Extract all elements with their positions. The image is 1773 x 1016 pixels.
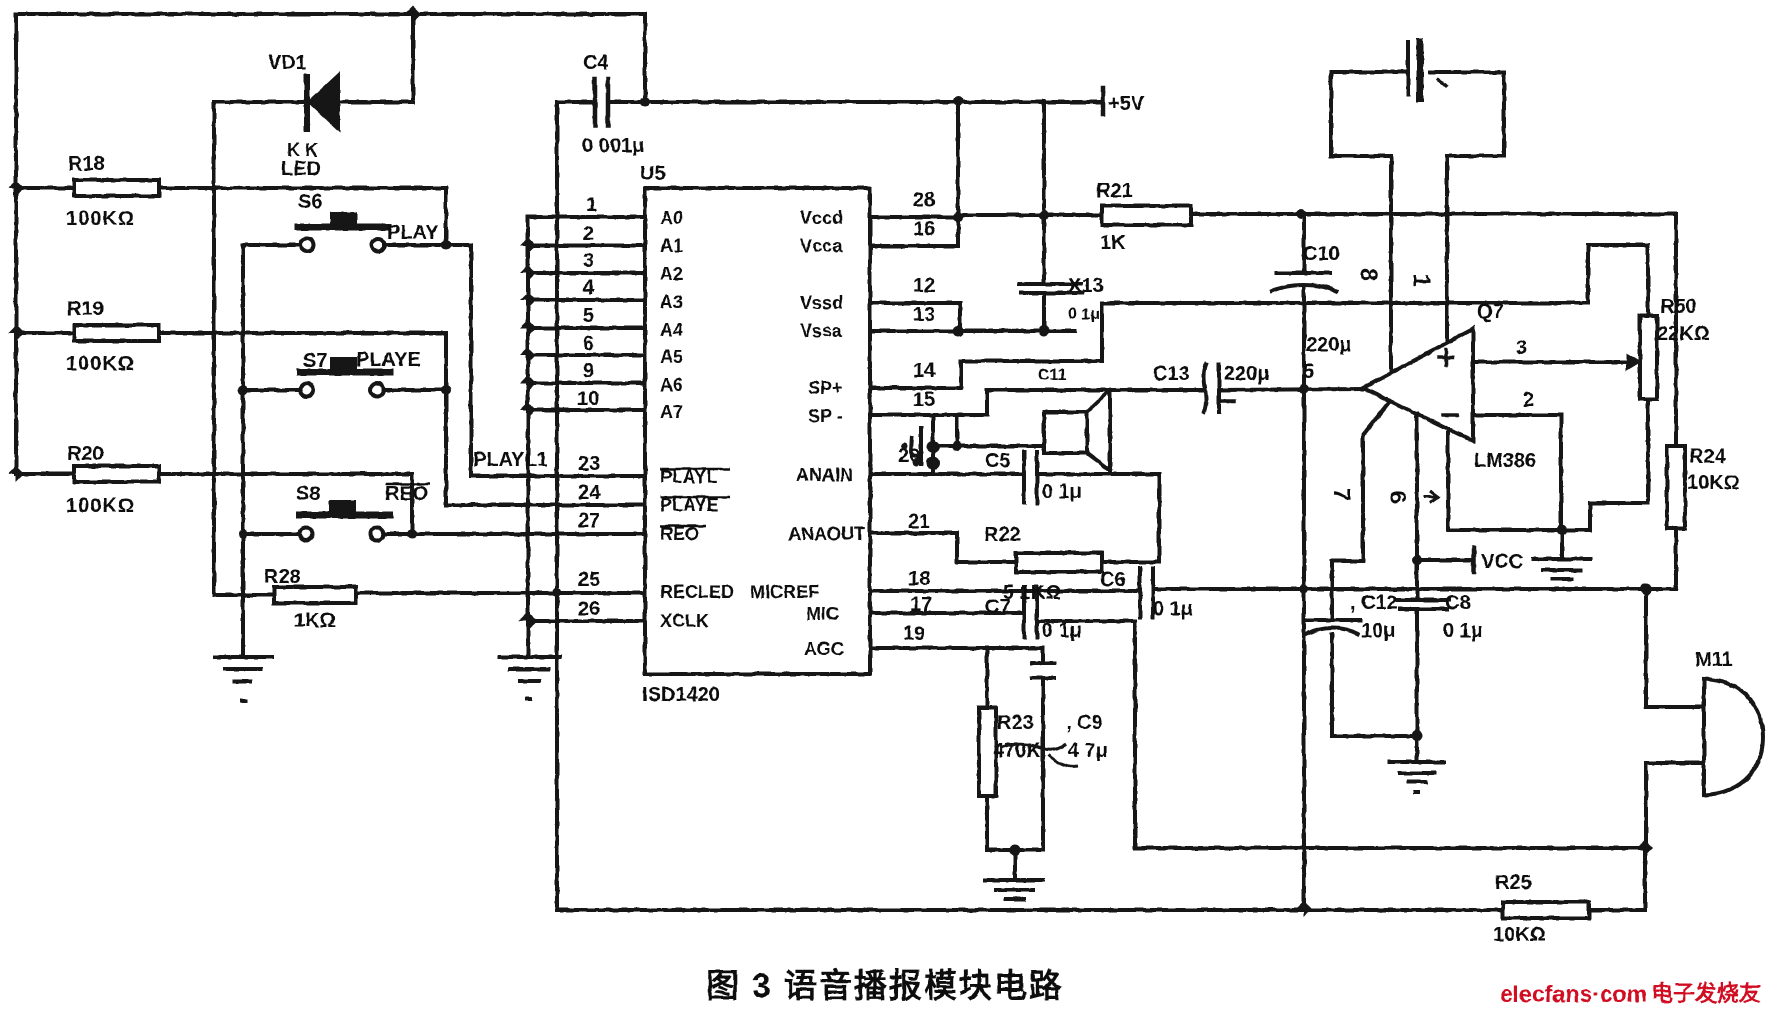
svg-text:8: 8	[1355, 268, 1382, 281]
svg-text:R20: R20	[67, 443, 104, 465]
wire R20 left lead	[16, 472, 74, 476]
resistor R18	[74, 180, 159, 196]
junction	[927, 457, 940, 470]
svg-text:C7: C7	[985, 596, 1011, 618]
svg-text:ANAIN: ANAIN	[796, 465, 853, 485]
svg-text:0 1μ: 0 1μ	[1068, 306, 1100, 323]
svg-text:10μ: 10μ	[1361, 620, 1395, 642]
svg-text:SP -: SP -	[808, 406, 843, 426]
svg-text:REO: REO	[385, 483, 428, 505]
svg-text:9: 9	[583, 360, 594, 382]
wire pin 12 Vssd	[870, 303, 960, 331]
svg-text:25: 25	[578, 569, 600, 591]
wire SP- to speaker box	[933, 444, 1044, 448]
svg-text:3: 3	[583, 250, 594, 272]
svg-text:VCC: VCC	[1481, 551, 1523, 573]
wire pin 14 SP+ riser	[870, 303, 1102, 388]
resistor R22	[1016, 553, 1102, 572]
resistor R24	[1667, 446, 1685, 528]
svg-text:17: 17	[910, 594, 932, 616]
svg-text:R21: R21	[1096, 180, 1133, 202]
junction	[8, 325, 24, 341]
svg-text:C11: C11	[1038, 367, 1067, 384]
wire R24 bottom leg	[1674, 528, 1678, 589]
wire C12 bottom leg	[1332, 634, 1417, 736]
svg-text:C13: C13	[1153, 363, 1190, 385]
svg-text:PLAY: PLAY	[387, 222, 439, 244]
wire pin 15 SP-	[870, 415, 957, 446]
wire lower run to M11 junction	[1135, 846, 1645, 850]
svg-text:XCLK: XCLK	[660, 611, 709, 631]
svg-text:6: 6	[1385, 491, 1411, 504]
wire amp pin 1 leg	[1445, 156, 1449, 342]
svg-text:A7: A7	[660, 402, 683, 422]
wire S6 left contact lead	[243, 243, 301, 247]
svg-text:SP+: SP+	[808, 378, 843, 398]
wire top border and left border	[16, 14, 645, 474]
wire C9 top leg	[1041, 648, 1045, 663]
wire X13 bottom leg	[1042, 293, 1046, 331]
svg-text:U5: U5	[640, 163, 666, 185]
svg-text:C10: C10	[1303, 243, 1340, 265]
wire S8 right contact to pin 27	[383, 532, 645, 536]
junction	[519, 612, 537, 630]
junction	[1296, 209, 1306, 219]
junction	[520, 292, 536, 308]
svg-text:24: 24	[578, 482, 601, 504]
wire ground drop from feedback box	[1560, 530, 1564, 559]
svg-text:23: 23	[578, 453, 600, 475]
junction	[1557, 525, 1568, 536]
svg-text:X13: X13	[1068, 275, 1104, 297]
capacitor C4	[595, 79, 608, 126]
wire switch common chain vertical	[241, 245, 245, 657]
svg-text:22KΩ: 22KΩ	[1657, 323, 1710, 345]
wire pin 5	[528, 326, 645, 330]
ground under C8 C12	[1389, 762, 1444, 792]
wire pin 18 MICREF to C6	[870, 589, 1140, 593]
svg-text:0 1μ: 0 1μ	[1042, 481, 1082, 503]
svg-text:电子发烧友: 电子发烧友	[1651, 981, 1761, 1006]
svg-text:AGC: AGC	[804, 639, 844, 659]
junction	[238, 385, 248, 395]
wire C7 to bottom run	[1038, 621, 1135, 848]
resistor R28	[274, 587, 356, 603]
svg-text:C6: C6	[1100, 569, 1126, 591]
svg-text:18: 18	[908, 568, 930, 590]
svg-text:S7: S7	[303, 350, 327, 372]
junction	[520, 375, 536, 391]
wire S7 left contact lead	[243, 388, 301, 392]
svg-text:S6: S6	[298, 191, 322, 213]
wire pin 21 ANAOUT	[870, 533, 1016, 562]
svg-text:R19: R19	[67, 298, 104, 320]
capacitor C7	[1024, 587, 1037, 637]
power VCC terminal	[1472, 548, 1477, 572]
svg-text:220μ: 220μ	[1306, 334, 1352, 356]
wire amp pin 8 leg	[1389, 156, 1393, 373]
svg-text:5: 5	[583, 305, 594, 327]
wire R28 right lead to pin 25	[356, 591, 645, 595]
svg-text:R24: R24	[1689, 446, 1727, 468]
svg-text:5: 5	[1303, 361, 1314, 383]
power +5V terminal	[1101, 88, 1106, 114]
junction	[640, 97, 650, 107]
wire M11 bottom branch	[1646, 763, 1704, 848]
junction	[8, 466, 24, 482]
wire C6 to R24 bottom long run	[1153, 587, 1676, 591]
junction	[405, 6, 421, 22]
wire pin 10	[528, 408, 645, 412]
wire pin 17 MIC to C7	[870, 611, 1024, 615]
svg-text:2: 2	[583, 223, 594, 245]
svg-text:1KΩ: 1KΩ	[294, 610, 336, 632]
wire to AGC ground	[1013, 850, 1017, 880]
wire R20 right lead to S8	[159, 474, 412, 534]
svg-text:A3: A3	[660, 292, 683, 312]
wire C13 to amp input pin 5	[1219, 389, 1363, 390]
wire address ladder vertical	[526, 217, 530, 657]
svg-text:100KΩ: 100KΩ	[66, 208, 135, 230]
wire X13 top leg from +5V rail	[1042, 101, 1046, 284]
capacitor X13	[1019, 284, 1082, 293]
svg-text:Vcca: Vcca	[800, 236, 843, 256]
svg-text:, C12: , C12	[1350, 592, 1398, 614]
wire R19 left lead	[16, 331, 74, 335]
svg-text:4 7μ: 4 7μ	[1068, 740, 1108, 762]
svg-text:21: 21	[908, 511, 930, 533]
junction	[520, 320, 536, 336]
wire pin 3	[528, 271, 645, 275]
svg-text:ANAOUT: ANAOUT	[788, 524, 865, 544]
wire pin 1	[528, 215, 645, 219]
resistor R25	[1503, 902, 1589, 918]
svg-text:6: 6	[583, 333, 594, 355]
switch S6	[298, 214, 388, 252]
svg-text:M11: M11	[1695, 649, 1733, 671]
svg-text:A1: A1	[660, 236, 683, 256]
wire R25 right lead	[1589, 848, 1645, 910]
junction	[239, 530, 248, 539]
junction	[1039, 210, 1049, 220]
wire R23 top leg	[985, 648, 989, 708]
junction	[1412, 555, 1422, 565]
wire S8 left contact lead	[243, 532, 300, 536]
svg-text:0 1μ: 0 1μ	[1443, 620, 1483, 642]
wire C9 bottom leg	[1041, 678, 1045, 850]
capacitor C13	[1204, 364, 1234, 412]
wire amp pin 4 6 leg	[1415, 414, 1419, 600]
junction	[1039, 326, 1050, 337]
wire R21 left lead	[958, 213, 1102, 217]
svg-text:R28: R28	[264, 566, 301, 588]
svg-text:7: 7	[1329, 488, 1355, 501]
wire amp pin 2 feedback box	[1448, 415, 1561, 530]
svg-text:0 1μ: 0 1μ	[1042, 620, 1082, 642]
svg-text:K K: K K	[287, 140, 318, 160]
svg-text:3: 3	[1516, 337, 1527, 359]
svg-text:1: 1	[1408, 274, 1435, 287]
wire long vertical x=557 from C4 to bottom rail	[555, 102, 559, 910]
capacitor C9	[1032, 663, 1054, 678]
wire speaker top link	[933, 390, 987, 474]
svg-text:14: 14	[913, 360, 936, 382]
svg-text:MICREF: MICREF	[750, 582, 819, 602]
svg-text:R23: R23	[997, 712, 1034, 734]
svg-text:13: 13	[913, 304, 935, 326]
svg-text:elecfans·com: elecfans·com	[1500, 981, 1647, 1007]
svg-text:C4: C4	[583, 52, 609, 74]
capacitor C12	[1306, 620, 1360, 634]
wire C8 bottom leg to ground	[1415, 609, 1419, 762]
resistor R21	[1102, 206, 1191, 225]
svg-text:A6: A6	[660, 375, 683, 395]
junction	[520, 402, 536, 418]
wire pin 2	[528, 244, 645, 248]
op-amp U7 LM386 triangle	[1363, 329, 1473, 441]
svg-text:R18: R18	[68, 153, 105, 175]
junction	[1637, 840, 1653, 856]
svg-text:1: 1	[586, 194, 597, 216]
wire VD1 cathode side	[338, 100, 413, 104]
wire main bus x=1304 upper	[1302, 213, 1306, 273]
wire feedback box to R50 bottom jog	[1561, 528, 1590, 532]
wire left bus x=214	[212, 102, 216, 595]
ground under R23 C9	[985, 880, 1043, 899]
wire C4 left lead	[557, 100, 595, 104]
wire bottom rail	[557, 908, 1503, 912]
svg-text:, C9: , C9	[1066, 712, 1103, 734]
junction	[927, 441, 939, 453]
speaker annotation 4	[901, 426, 921, 466]
svg-text:10: 10	[577, 388, 599, 410]
wire main bus x=1304 lower	[1302, 289, 1306, 909]
svg-text:A5: A5	[660, 347, 683, 367]
wire R23 bottom leg	[987, 796, 1043, 850]
svg-text:0 001μ: 0 001μ	[582, 135, 644, 157]
svg-text:220μ: 220μ	[1224, 363, 1270, 385]
junction	[1299, 384, 1309, 394]
svg-text:RECLED: RECLED	[660, 582, 734, 602]
svg-text:15: 15	[913, 389, 935, 411]
wire amp pin 7 leg	[1332, 401, 1390, 620]
svg-text:2: 2	[1523, 389, 1534, 411]
junction	[441, 385, 451, 395]
wire pin 20 ANAIN with C5	[870, 472, 1024, 476]
resistor R19	[74, 325, 159, 341]
wire long Vss run to volume pot	[1102, 245, 1648, 316]
svg-text:R25: R25	[1495, 872, 1532, 894]
svg-text:+5V: +5V	[1108, 93, 1145, 115]
speaker LS1	[1044, 390, 1110, 474]
svg-text:1K: 1K	[1100, 232, 1126, 254]
switch S8	[300, 502, 391, 541]
junction	[1412, 731, 1423, 742]
wire VD1 branch vertical	[411, 14, 415, 102]
wire pin 6	[528, 353, 645, 357]
junction	[953, 326, 964, 337]
wire VD1 anode side	[214, 100, 306, 104]
potentiometer R50	[1640, 316, 1657, 399]
svg-text:R50: R50	[1660, 296, 1697, 318]
junction	[553, 588, 562, 597]
junction	[952, 441, 962, 451]
svg-text:A2: A2	[660, 264, 683, 284]
svg-text:27: 27	[578, 510, 600, 532]
svg-text:VD1: VD1	[268, 52, 307, 74]
junction	[520, 347, 536, 363]
wire C4 right lead and +5V rail	[608, 100, 1103, 104]
capacitor C10	[1272, 273, 1336, 291]
svg-text:0 1μ: 0 1μ	[1153, 598, 1193, 620]
svg-text:12: 12	[913, 275, 935, 297]
wire R50 bottom leg	[1590, 399, 1648, 530]
wire M11 top branch	[1646, 589, 1704, 707]
wire ANAIN right segment	[1037, 474, 1159, 562]
svg-text:100KΩ: 100KΩ	[66, 353, 135, 375]
ground under switch chain	[215, 657, 272, 701]
svg-text:A0: A0	[660, 208, 683, 228]
wire pin 16 Vcca and vertical to +5V	[870, 100, 958, 246]
svg-text:S8: S8	[296, 483, 320, 505]
resistor R20	[74, 466, 159, 482]
svg-text:Q7: Q7	[1477, 301, 1504, 323]
svg-text:100KΩ: 100KΩ	[66, 495, 135, 517]
svg-text:28: 28	[913, 189, 935, 211]
junction	[1300, 585, 1309, 594]
wire R18 left lead	[16, 186, 74, 190]
svg-text:16: 16	[913, 218, 935, 240]
junction	[1641, 584, 1652, 595]
svg-text:19: 19	[903, 623, 925, 645]
junction	[953, 212, 963, 222]
wire pin 13 Vsso	[870, 329, 1075, 333]
resistor R23	[979, 708, 996, 796]
junction	[520, 265, 536, 281]
svg-text:4: 4	[583, 277, 595, 299]
junction	[1010, 845, 1021, 856]
wire S7 right contact lead	[383, 388, 446, 392]
wire pin 28 Vccd	[870, 215, 958, 219]
svg-text:C8: C8	[1445, 592, 1471, 614]
wire top-right vertical into +5V rail	[643, 14, 647, 102]
svg-text:10KΩ: 10KΩ	[1493, 924, 1546, 946]
svg-text:Vccd: Vccd	[800, 208, 843, 228]
junction	[520, 238, 536, 254]
diode VD1	[307, 76, 338, 129]
svg-text:26: 26	[578, 598, 600, 620]
switch S7	[300, 359, 390, 397]
capacitor C6	[1140, 568, 1153, 617]
junction	[407, 529, 417, 539]
junction	[1296, 901, 1312, 917]
wire pin 26 XCLK to ground	[528, 619, 645, 623]
wire R21 right lead to top-right corner	[1191, 214, 1676, 446]
wire pin 4	[528, 298, 645, 302]
svg-text:LED: LED	[281, 158, 321, 180]
svg-text:Vssa: Vssa	[800, 321, 843, 341]
svg-text:C5: C5	[985, 450, 1011, 472]
battery box top	[1331, 42, 1504, 156]
ground under LM386	[1533, 559, 1590, 579]
wire R18 right lead to S6	[159, 188, 446, 245]
junction	[441, 240, 451, 250]
svg-text:10KΩ: 10KΩ	[1687, 472, 1740, 494]
ground under XCLK	[500, 657, 560, 699]
svg-text:PLAYE: PLAYE	[356, 349, 421, 371]
svg-text:ISD1420: ISD1420	[642, 684, 720, 706]
wire pin 19 AGC	[870, 646, 1043, 650]
junction	[8, 180, 24, 196]
wire speaker top rail to C13	[987, 388, 1205, 392]
svg-text:PLAYL1: PLAYL1	[473, 449, 548, 471]
amp pin 4 arrow mark	[1424, 491, 1438, 503]
wire R19 right lead to S7 and pin 24	[159, 333, 645, 505]
wire R28 left lead	[214, 593, 274, 597]
op-amp chip U5 box	[645, 188, 870, 674]
svg-text:MIC: MIC	[806, 604, 839, 624]
svg-text:LM386: LM386	[1474, 450, 1536, 472]
svg-text:5 1KΩ: 5 1KΩ	[1003, 582, 1061, 604]
svg-text:图 3 语音播报模块电路: 图 3 语音播报模块电路	[706, 967, 1064, 1004]
svg-text:Vssd: Vssd	[800, 293, 843, 313]
junction	[953, 96, 963, 106]
wire S6 right contact to PLAYL1 drop	[384, 245, 645, 476]
capacitor C8	[1398, 600, 1449, 609]
wire VCC tap	[1417, 558, 1474, 562]
svg-text:A4: A4	[660, 320, 683, 340]
svg-text:R22: R22	[984, 524, 1021, 546]
capacitor C5	[1024, 452, 1037, 503]
microphone M11	[1704, 679, 1763, 795]
wire pin 9	[528, 381, 645, 385]
wire amp pin 3 output with arrow to R50	[1473, 360, 1626, 364]
